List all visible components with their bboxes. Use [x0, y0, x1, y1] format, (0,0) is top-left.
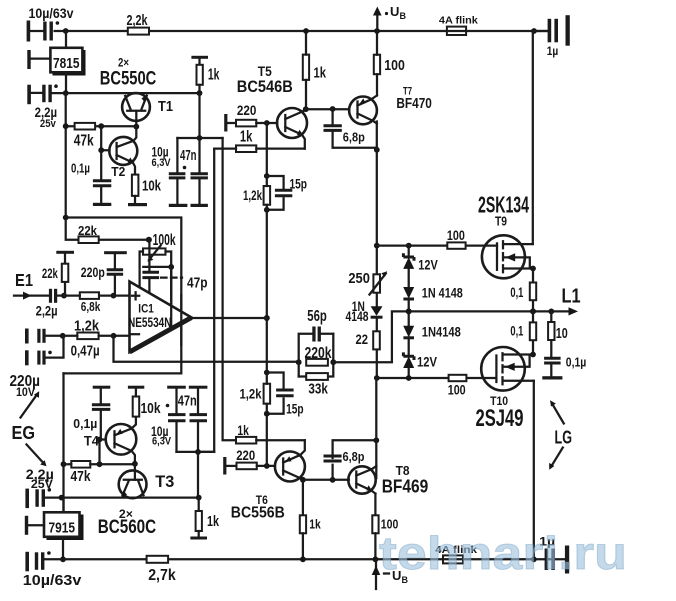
wire plus input [114, 294, 130, 296]
capacitor 0,1u upper [71, 150, 111, 203]
wire output row L1 [409, 310, 572, 312]
wire T9 drain to rail [532, 31, 534, 244]
resistor R 100 T10 gate [448, 375, 467, 398]
wire vertical line C x181.3 [64, 218, 182, 374]
capacitor 0,1u lower [73, 386, 110, 440]
resistor R 1,2k input minus [63, 319, 114, 340]
node caps top [197, 135, 203, 141]
capacitor 15p lower [267, 373, 304, 417]
ground 2,2u/25v [27, 85, 42, 105]
wire vertical line B x214.2 [198, 149, 214, 452]
wire x199 down to caps [198, 93, 200, 138]
svg-text:1,2k: 1,2k [243, 187, 262, 203]
node left column y217 [63, 215, 69, 221]
svg-text:56p: 56p [307, 308, 327, 325]
node rail UB [374, 28, 380, 34]
terminal bar 220 row lower [223, 457, 236, 475]
transistor T6 BC556B [231, 440, 305, 521]
resistor R 1k T5 emitter [214, 129, 305, 152]
zener 12V upper [403, 253, 438, 272]
svg-text:1N4148: 1N4148 [422, 324, 461, 340]
label LG with arrows [549, 400, 572, 470]
svg-text:2SK134: 2SK134 [478, 191, 529, 217]
svg-text:10µ/63v: 10µ/63v [29, 5, 74, 21]
potentiometer 250 [348, 271, 387, 295]
svg-text:22k: 22k [78, 223, 98, 238]
wire bias chain x376.5 [376, 122, 378, 379]
ground 7815 [27, 50, 50, 69]
capacitor 47n lower [178, 386, 208, 452]
resistor R 100 T9 gate [447, 228, 466, 249]
wire T3 row y497.6 [46, 496, 199, 498]
svg-text:T9: T9 [495, 215, 507, 229]
resistor R 100 T7 emitter [374, 31, 405, 96]
svg-text:220: 220 [236, 448, 255, 463]
node 47k left [63, 123, 69, 129]
svg-text:47k: 47k [74, 133, 94, 150]
svg-text:25v: 25v [40, 118, 57, 130]
node 1k rail [300, 556, 306, 562]
svg-text:12V: 12V [418, 256, 438, 272]
svg-text:1k: 1k [207, 514, 220, 530]
transistor T1 BC550C [100, 57, 173, 126]
svg-text:10: 10 [556, 325, 568, 342]
svg-text:10k: 10k [142, 179, 162, 195]
svg-text:6,3V: 6,3V [152, 436, 172, 448]
svg-text:1,2k: 1,2k [74, 319, 100, 335]
svg-text:25V: 25V [31, 479, 53, 491]
svg-text:BF469: BF469 [382, 476, 429, 496]
resistor R 1k bottom left [196, 498, 220, 537]
op-amp IC1 NE5534N [128, 282, 192, 353]
wire column x266.8 mid [266, 210, 268, 373]
resistor R 10k upper [132, 175, 162, 203]
svg-text:L1: L1 [562, 285, 581, 307]
node diode column top [406, 243, 412, 249]
capacitor 56p [299, 308, 334, 377]
wire T8 base row [303, 479, 349, 481]
resistor R 47k lower [64, 461, 136, 485]
node rail right [531, 28, 537, 34]
capacitor 6,8p lower [324, 440, 377, 480]
ground top-left 10u/63v [27, 21, 43, 42]
svg-text:BC550C: BC550C [100, 68, 157, 90]
resistor R 1k top (x199.5) [191, 56, 219, 93]
fuse 4A flink bottom [435, 544, 477, 563]
svg-text:7915: 7915 [49, 520, 76, 537]
svg-text:T3: T3 [155, 472, 174, 491]
svg-text:0,1: 0,1 [510, 323, 523, 338]
capacitor 220u/10v [10, 336, 64, 399]
wire 47k row [66, 125, 137, 127]
resistor R 1k T6 load [300, 480, 322, 560]
capacitor 1u top right [534, 19, 558, 58]
node caps bottom [195, 449, 201, 455]
svg-text:220: 220 [237, 102, 257, 118]
wire minus input [114, 335, 130, 337]
node diode column bottom [406, 375, 412, 381]
watermark tehnari.ru [379, 527, 627, 579]
svg-text:0,47µ: 0,47µ [71, 344, 100, 360]
resistor R 2,7k [147, 556, 176, 584]
node T8 rail [373, 556, 379, 562]
transistor T8 BF469 [348, 463, 428, 497]
node bias top [374, 243, 380, 249]
svg-text:10µ/63v: 10µ/63v [23, 572, 82, 589]
svg-text:1k: 1k [240, 129, 253, 146]
wire T8 collector up [375, 378, 377, 478]
wire x198 to T3 row [197, 452, 199, 498]
node bias bottom [374, 375, 380, 381]
node 1k bottom left [196, 495, 202, 501]
svg-text:4148: 4148 [346, 309, 369, 324]
node T8 collector net [373, 437, 379, 443]
ground 0,1u upper [93, 203, 111, 206]
svg-text:33k: 33k [308, 381, 328, 397]
node T5 base [264, 120, 270, 126]
wire bottom supply rail -UB [44, 558, 564, 560]
terminal bar 220 row [224, 114, 236, 132]
svg-text:100: 100 [448, 382, 466, 397]
svg-text:6,8k: 6,8k [81, 300, 101, 314]
power +UB stub [373, 4, 407, 31]
node 6,8p tap upper [330, 106, 336, 112]
capacitor 2,2u/25v lower [26, 466, 54, 507]
node T5 collector [303, 106, 309, 112]
node rail-7815 [63, 28, 69, 34]
wire feedback to output node [333, 311, 408, 362]
svg-text:BC556B: BC556B [231, 505, 285, 522]
zener 12V lower [403, 352, 437, 369]
power -UB stub [372, 559, 409, 589]
node T10 source [530, 352, 536, 358]
node 47k lower right [97, 461, 103, 467]
wire column x266.8 lower [266, 414, 268, 466]
wire opamp output [192, 317, 267, 319]
node 47k lower left [61, 461, 67, 467]
wire feedback row to network [114, 336, 299, 362]
resistor R 220 upper [236, 102, 277, 127]
ground 10u upper [169, 204, 188, 207]
capacitor 10u/6,3v lower [151, 386, 186, 452]
svg-text:220p: 220p [81, 265, 105, 280]
transistor T9 2SK134 [478, 191, 533, 278]
svg-text:1k: 1k [237, 422, 249, 438]
svg-text:100: 100 [384, 58, 405, 74]
potentiometer 100k [140, 232, 176, 328]
svg-text:LG: LG [555, 426, 573, 447]
node T3 base [132, 461, 138, 467]
resistor R 220k [305, 345, 332, 366]
resistor R 2,2k [127, 13, 150, 35]
svg-text:7815: 7815 [53, 55, 80, 72]
transistor T4 BC560C [84, 417, 136, 464]
node T1 base [133, 124, 139, 130]
svg-text:100k: 100k [153, 232, 176, 249]
capacitor 220p [81, 251, 127, 295]
svg-text:6,8p: 6,8p [343, 130, 365, 145]
capacitor 2,2u input [36, 289, 64, 319]
node 1,2k lower top [264, 370, 270, 376]
svg-text:0,1µ: 0,1µ [71, 162, 90, 176]
node 0,47u junction [60, 333, 66, 339]
svg-text:BC560C: BC560C [98, 516, 157, 538]
node output L1 [530, 308, 536, 314]
svg-text:2SJ49: 2SJ49 [476, 405, 524, 432]
resistor R 22k feedback top [66, 218, 149, 244]
wire 7915 to rail [62, 537, 64, 560]
capacitor 1u bottom right [539, 534, 555, 570]
wire 100k frame over opamp [170, 267, 172, 328]
svg-text:47p: 47p [187, 276, 208, 292]
diode 1N4148 upper [403, 285, 463, 301]
resistor R 1,2k lower [240, 373, 271, 414]
svg-text:NE5534N: NE5534N [128, 314, 172, 330]
resistor R 1k T6 emitter [236, 422, 305, 444]
svg-text:4A flink: 4A flink [439, 15, 478, 27]
svg-text:BC546B: BC546B [237, 77, 293, 96]
svg-text:47n: 47n [180, 148, 197, 164]
svg-text:22: 22 [356, 332, 369, 347]
capacitor 0,1u zobel [544, 355, 586, 376]
capacitor 10u/63v top-left [29, 5, 74, 41]
resistor R 1k collector x306 [303, 31, 327, 109]
wire 7815 output [65, 72, 67, 93]
wire 7815 input [65, 31, 67, 48]
wire base row y93 [52, 92, 200, 94]
transistor T3 BC560C [98, 464, 175, 538]
resistor R 33k [299, 334, 334, 398]
node T10 drain rail [531, 556, 537, 562]
svg-text:1N 4148: 1N 4148 [422, 285, 463, 301]
resistor R 6,8k [64, 292, 114, 314]
wire 47p horizontal [143, 266, 171, 268]
node 100k top [146, 237, 152, 243]
svg-text:6,3V: 6,3V [152, 157, 172, 169]
ground 10u/63v lower [25, 552, 29, 572]
wire line C over opamp [180, 295, 182, 345]
node 10 ohm tap [548, 309, 554, 315]
resistor R 1,2k upper [243, 176, 270, 210]
svg-text:0,1: 0,1 [510, 285, 523, 300]
input E1 [14, 270, 48, 300]
node opamp plus input [111, 293, 117, 299]
node feedback frame right [330, 359, 336, 365]
resistor R 100 T8 emitter [372, 494, 398, 560]
wire T2 base [101, 126, 109, 150]
wire vertical line A x222.6 [223, 138, 237, 440]
svg-text:1k: 1k [314, 66, 327, 82]
svg-text:2,2k: 2,2k [127, 13, 149, 29]
svg-text:B: B [400, 11, 407, 21]
wire caps frame top [177, 137, 222, 139]
svg-text:E1: E1 [15, 270, 33, 290]
ground zobel [542, 376, 562, 379]
capacitor 47n upper [180, 138, 208, 204]
wire column x266.8 upper [266, 123, 268, 176]
capacitor 6,8p upper [324, 109, 377, 148]
svg-text:47n: 47n [178, 393, 197, 409]
node 47k right [98, 123, 104, 129]
wire diode column [408, 246, 410, 378]
resistor R 0,1 lower [510, 311, 536, 354]
svg-text:T2: T2 [111, 165, 125, 179]
capacitor 10u/6,3v upper [152, 138, 187, 204]
svg-text:100: 100 [447, 228, 465, 243]
node 1k bottom [197, 90, 203, 96]
svg-text:15p: 15p [290, 175, 308, 191]
svg-text:0,1µ: 0,1µ [566, 355, 587, 369]
node 2,2u junction [63, 90, 69, 96]
transistor T2 BC550C [109, 127, 137, 179]
resistor R 10 [548, 311, 568, 356]
node 1,2k lower bottom [264, 411, 270, 417]
svg-text:47k: 47k [71, 469, 92, 485]
resistor R 22 [356, 331, 380, 349]
svg-text:2,2µ: 2,2µ [36, 303, 58, 319]
wire left column x66 [65, 93, 67, 217]
svg-text:0,1µ: 0,1µ [73, 417, 97, 431]
ground 1u bottom right [565, 546, 569, 574]
wire T9 gate row [377, 244, 497, 246]
resistor R 0,1 upper [510, 269, 536, 312]
wire T10 drain down [533, 381, 535, 560]
node T6 collector [300, 477, 306, 483]
node T9 source [530, 266, 536, 272]
node opamp output junction [264, 315, 270, 321]
ground 7915 [25, 516, 44, 535]
svg-text:2,7k: 2,7k [148, 567, 176, 584]
wire T10 gate row [377, 377, 496, 379]
capacitor 0,47u [25, 329, 100, 360]
resistor R 220 lower [236, 448, 275, 469]
capacitor 10u/63v lower [23, 551, 82, 589]
svg-text:10V: 10V [16, 387, 35, 399]
capacitor 47p [142, 240, 207, 295]
svg-text:1µ: 1µ [547, 44, 559, 58]
capacitor 2,2u/25v [35, 84, 58, 130]
wire left column bottom x63.5 [62, 373, 64, 512]
node feedback frame left [296, 359, 302, 365]
arrow L1 [569, 307, 579, 315]
node 1,2k bottom [264, 207, 270, 213]
svg-text:BF470: BF470 [396, 96, 432, 112]
resistor R 47k upper [74, 123, 95, 150]
node 6,8p tap lower [330, 477, 336, 483]
wire top supply rail +UB [55, 30, 547, 32]
svg-text:1,2k: 1,2k [240, 386, 262, 402]
svg-text:tehnari.ru: tehnari.ru [379, 527, 627, 579]
svg-text:U: U [390, 4, 399, 19]
IC 7915 regulator [44, 498, 84, 540]
node T2 base [98, 147, 104, 153]
diode 1N4148 left [346, 299, 383, 324]
svg-text:220k: 220k [305, 345, 332, 362]
node T7 collector [374, 147, 380, 153]
svg-text:10k: 10k [141, 400, 162, 417]
ground 1k bottom left [190, 537, 207, 540]
label EG with arrows [12, 391, 47, 466]
node rail 1k [303, 28, 309, 34]
ground 10k upper [128, 203, 147, 206]
svg-text:T4: T4 [84, 434, 99, 449]
node T6 base [264, 463, 270, 469]
node input junction [61, 293, 67, 299]
svg-text:12V: 12V [417, 354, 438, 370]
transistor T7 BF470 [349, 86, 432, 125]
svg-text:6,8p: 6,8p [343, 449, 365, 464]
svg-text:1k: 1k [208, 67, 220, 84]
fuse 4A flink top [439, 15, 478, 35]
ground 1u top right [566, 15, 570, 46]
svg-text:T1: T1 [158, 98, 173, 115]
node 1,2k top [264, 173, 270, 179]
transistor T5 BC546B [237, 63, 307, 149]
ground 47n upper [191, 204, 208, 207]
node T4 base [97, 437, 103, 443]
node 47p net [168, 264, 174, 270]
svg-text:EG: EG [12, 423, 36, 443]
node diode column mid [406, 308, 412, 314]
capacitor 15p upper [267, 175, 307, 210]
svg-text:15p: 15p [286, 401, 304, 417]
transistor T10 2SJ49 [476, 347, 534, 432]
svg-text:250: 250 [348, 271, 370, 287]
node opamp minus input [111, 333, 117, 339]
node 2,2u lower junction [59, 495, 65, 501]
wire T4 base [100, 440, 106, 465]
svg-text:22k: 22k [42, 266, 58, 281]
ground 2,2u lower [25, 489, 29, 509]
IC 7815 regulator [50, 48, 85, 76]
resistor R 10k lower [128, 386, 161, 417]
node rail bottom left [60, 556, 66, 562]
resistor R 22k input shunt [42, 251, 74, 296]
wire T7 base row [306, 108, 350, 110]
diode 1N4148 lower [403, 324, 461, 340]
svg-text:1k: 1k [309, 516, 321, 531]
wire caps frame bottom [177, 451, 215, 453]
